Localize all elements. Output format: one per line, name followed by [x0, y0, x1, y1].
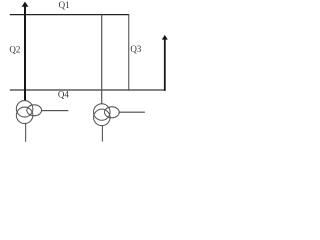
wire Q3 drop to bus Q4 — [128, 15, 129, 91]
svg-text:Q1: Q1 — [59, 0, 70, 10]
feeder arrow right (head) — [162, 35, 168, 40]
feeder arrow left (head) — [22, 2, 29, 7]
svg-text:Q2: Q2 — [9, 45, 20, 55]
svg-text:Q3: Q3 — [130, 44, 141, 54]
wire T2 right lead — [119, 112, 145, 113]
wire Q1 drop to transformer T2 — [101, 15, 102, 105]
transformer T2 winding top — [94, 104, 111, 121]
transformer T2 winding tertiary — [105, 107, 120, 118]
bus top horizontal line — [10, 14, 129, 15]
transformer T1 winding top — [16, 101, 32, 118]
wire T1 right lead — [41, 110, 68, 111]
feeder arrow left (shaft) — [24, 5, 26, 101]
svg-text:Q4: Q4 — [58, 90, 69, 100]
transformer T1 winding bottom — [16, 107, 32, 124]
wire T1 bottom lead — [25, 123, 26, 142]
wire T2 bottom lead — [102, 126, 103, 142]
feeder arrow right (shaft) — [164, 39, 166, 91]
transformer T2 winding bottom — [94, 109, 111, 126]
bus Q4 horizontal line — [10, 89, 166, 91]
transformer T1 winding tertiary — [27, 105, 42, 116]
